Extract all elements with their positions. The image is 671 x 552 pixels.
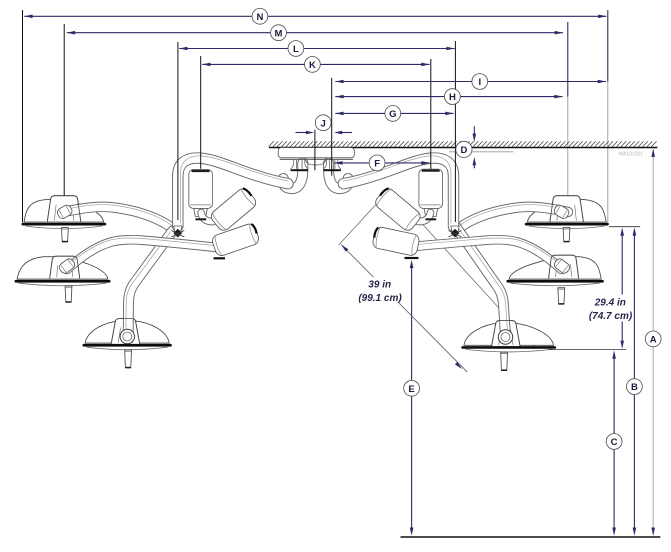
svg-text:A: A — [650, 335, 657, 346]
svg-text:C: C — [611, 437, 618, 448]
svg-text:G: G — [389, 109, 396, 120]
svg-text:E: E — [408, 384, 414, 395]
svg-text:L: L — [293, 44, 299, 55]
svg-text:(99.1 cm): (99.1 cm) — [358, 293, 402, 304]
svg-text:M: M — [275, 28, 283, 39]
svg-text:N: N — [256, 12, 263, 23]
svg-text:J: J — [321, 118, 326, 129]
svg-text:B: B — [631, 382, 638, 393]
svg-text:(74.7 cm): (74.7 cm) — [589, 311, 633, 322]
svg-text:F: F — [374, 159, 380, 170]
svg-text:H: H — [449, 92, 456, 103]
svg-text:D: D — [460, 145, 467, 156]
svg-text:K: K — [309, 60, 316, 71]
svg-text:MA101911: MA101911 — [619, 152, 643, 158]
svg-text:39 in: 39 in — [368, 280, 391, 291]
svg-text:I: I — [478, 77, 481, 88]
svg-text:29.4 in: 29.4 in — [594, 298, 626, 309]
